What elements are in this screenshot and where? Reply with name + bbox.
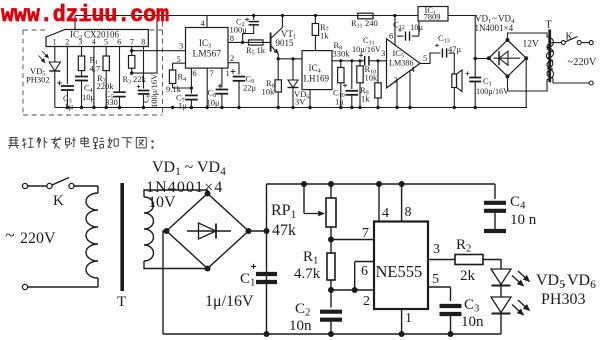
svg-text:1: 1	[405, 311, 412, 326]
svg-text:3: 3	[381, 48, 385, 58]
svg-text:1μ: 1μ	[335, 97, 344, 107]
svg-text:3: 3	[78, 38, 82, 47]
svg-text:100μ/16V: 100μ/16V	[476, 87, 509, 96]
svg-text:3: 3	[433, 242, 440, 257]
svg-text:330: 330	[105, 97, 118, 107]
svg-text:100μ: 100μ	[230, 25, 248, 35]
svg-text:10μ: 10μ	[207, 98, 221, 108]
svg-text:4: 4	[92, 38, 96, 47]
svg-text:2: 2	[363, 294, 370, 309]
svg-text:1k: 1k	[320, 31, 329, 41]
svg-text:330k: 330k	[333, 49, 351, 59]
svg-text:LM567: LM567	[193, 50, 222, 60]
svg-text:1k: 1k	[361, 94, 370, 104]
svg-text:1k: 1k	[257, 45, 266, 55]
svg-text:T: T	[117, 294, 126, 310]
svg-text:PH303: PH303	[541, 291, 585, 308]
svg-text:5: 5	[423, 53, 427, 63]
svg-text:220V: 220V	[20, 230, 56, 247]
svg-text:10k: 10k	[365, 73, 379, 83]
svg-text:3V: 3V	[295, 97, 306, 107]
svg-text:9015: 9015	[276, 38, 295, 48]
svg-text:6: 6	[193, 68, 197, 78]
svg-text:240: 240	[365, 18, 378, 28]
svg-text:CX20106: CX20106	[84, 30, 120, 40]
svg-text:8: 8	[230, 33, 234, 43]
svg-text:~: ~	[492, 14, 497, 24]
svg-text:7809: 7809	[424, 12, 441, 22]
svg-text:8: 8	[141, 38, 145, 47]
svg-text:6: 6	[389, 31, 393, 41]
svg-text:1: 1	[53, 38, 57, 47]
svg-text:5: 5	[177, 54, 181, 64]
svg-text:7: 7	[130, 38, 134, 47]
svg-text:2: 2	[65, 38, 69, 47]
svg-text:1μ: 1μ	[178, 101, 187, 111]
svg-text:10μ: 10μ	[410, 22, 424, 32]
svg-text:1μ/16V: 1μ/16V	[205, 293, 254, 310]
svg-text:22k: 22k	[133, 74, 147, 84]
svg-text:10V: 10V	[148, 194, 176, 211]
svg-text:K: K	[53, 193, 64, 209]
svg-text:8: 8	[405, 205, 412, 220]
svg-text:100μ/16V: 100μ/16V	[149, 73, 159, 108]
svg-text:~: ~	[5, 225, 15, 245]
svg-text:NE555: NE555	[376, 262, 423, 281]
svg-text:1N4001×4: 1N4001×4	[475, 23, 514, 33]
svg-text:LH169: LH169	[304, 74, 330, 84]
svg-text:12V: 12V	[523, 40, 540, 50]
svg-text:6: 6	[117, 38, 121, 47]
svg-text:2k: 2k	[460, 268, 476, 284]
svg-text:1: 1	[226, 68, 230, 78]
svg-text:PH302: PH302	[26, 75, 50, 85]
svg-text:10n: 10n	[461, 314, 484, 330]
svg-text:10μ/16V: 10μ/16V	[352, 45, 381, 54]
svg-text:~220V: ~220V	[568, 57, 597, 68]
svg-text:22μ: 22μ	[243, 83, 257, 93]
svg-text:3: 3	[179, 41, 183, 51]
svg-text:47k: 47k	[272, 222, 296, 239]
svg-text:,: ,	[562, 272, 566, 289]
svg-text:4: 4	[382, 206, 389, 221]
svg-text:4.7k: 4.7k	[294, 266, 321, 282]
svg-text:47μ: 47μ	[448, 44, 462, 54]
svg-text:6: 6	[361, 264, 368, 279]
svg-text:10k: 10k	[262, 87, 276, 97]
svg-text:K: K	[566, 32, 574, 43]
svg-text:5: 5	[104, 38, 108, 47]
svg-text:www.dziuu.com: www.dziuu.com	[1, 2, 169, 28]
svg-text:5: 5	[432, 272, 439, 287]
svg-text:10 n: 10 n	[510, 212, 537, 228]
svg-text:10n: 10n	[289, 318, 312, 334]
svg-text:7: 7	[362, 226, 369, 241]
svg-text:7: 7	[210, 68, 214, 78]
svg-text:2: 2	[394, 75, 398, 85]
svg-text:~: ~	[185, 159, 194, 176]
svg-text:T: T	[546, 20, 552, 31]
svg-text:1μ: 1μ	[65, 101, 74, 111]
svg-text:4.7: 4.7	[90, 64, 101, 74]
svg-text:2: 2	[230, 53, 234, 63]
